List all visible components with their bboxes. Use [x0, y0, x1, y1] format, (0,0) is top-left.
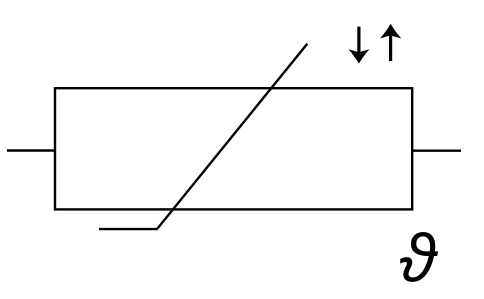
- arrow up (temperature increases): [380, 24, 401, 61]
- wire right lead: [412, 149, 461, 151]
- thermistor body rectangle: [55, 88, 412, 209]
- label theta (temperature): [399, 220, 439, 296]
- wire left lead: [7, 149, 55, 151]
- svg-text:ϑ: ϑ: [399, 220, 439, 296]
- arrow down (resistance decreases): [348, 27, 369, 64]
- thermistor variability stroke (diagonal with foot): [99, 44, 307, 230]
